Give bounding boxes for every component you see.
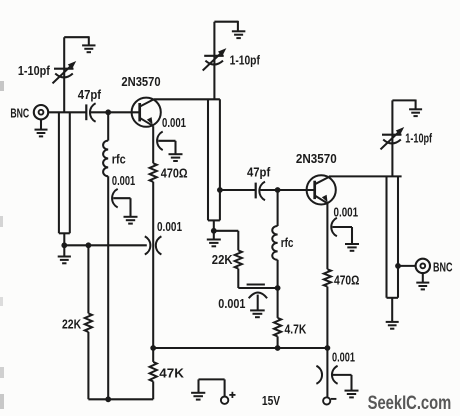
svg-text:470Ω: 470Ω xyxy=(161,167,188,181)
svg-text:2N3570: 2N3570 xyxy=(121,75,160,89)
svg-text:0.001: 0.001 xyxy=(218,297,245,311)
svg-text:rfc: rfc xyxy=(281,236,294,250)
svg-text:BNC: BNC xyxy=(10,106,29,121)
svg-text:2N3570: 2N3570 xyxy=(296,152,337,166)
svg-text:22K: 22K xyxy=(212,253,233,267)
svg-text:1-10pf: 1-10pf xyxy=(405,131,432,145)
svg-text:SeekIC.com: SeekIC.com xyxy=(368,393,452,414)
svg-text:0.001: 0.001 xyxy=(334,205,359,219)
svg-text:BNC: BNC xyxy=(433,260,453,275)
svg-text:47pf: 47pf xyxy=(247,165,271,179)
svg-text:4.7K: 4.7K xyxy=(285,322,307,336)
svg-text:47K: 47K xyxy=(159,366,184,380)
svg-text:0.001: 0.001 xyxy=(157,220,182,234)
svg-text:0.001: 0.001 xyxy=(162,116,186,130)
svg-text:22K: 22K xyxy=(62,317,81,331)
svg-text:47pf: 47pf xyxy=(78,88,102,102)
svg-text:15V: 15V xyxy=(262,394,281,408)
svg-text:0.001: 0.001 xyxy=(112,174,135,188)
svg-text:1-10pf: 1-10pf xyxy=(18,64,51,78)
svg-text:rfc: rfc xyxy=(112,153,126,167)
svg-text:0.001: 0.001 xyxy=(332,350,355,364)
svg-text:1-10pf: 1-10pf xyxy=(230,53,261,67)
svg-text:470Ω: 470Ω xyxy=(334,274,359,288)
